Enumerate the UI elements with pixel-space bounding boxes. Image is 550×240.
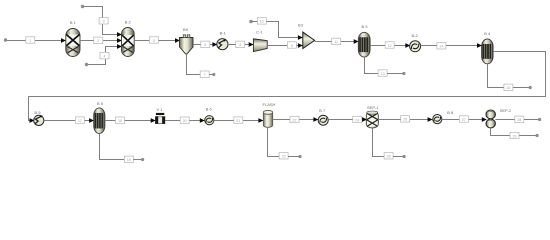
svg-text:B 6: B 6 [206, 107, 213, 112]
svg-text:B-1: B-1 [220, 31, 227, 36]
svg-text:3: 3 [103, 20, 105, 24]
wire recycle B-4 to heater B-5 [29, 52, 546, 121]
wire cyclone bottom tail [209, 74, 213, 76]
arrowhead into pump B-2 [405, 43, 410, 48]
arrowhead into cyclone [175, 38, 180, 43]
node end dot SEP-2 bottom [536, 134, 539, 137]
arrowhead into B3 upper [298, 35, 303, 40]
label box stream 29 [510, 132, 519, 138]
arrowhead into B1 [61, 38, 66, 43]
svg-text:B 3: B 3 [361, 24, 368, 29]
arrowhead into SEP-2 [482, 117, 487, 122]
wire B5 to valve V1 [105, 120, 155, 122]
svg-text:16: 16 [506, 86, 510, 90]
pump B-6 swirl circle [205, 116, 214, 125]
wire B5 bottom outlet [100, 134, 125, 160]
label box stream 20 [180, 117, 189, 123]
svg-text:19: 19 [127, 158, 131, 162]
wire B-4 bottom tail [513, 87, 530, 89]
node end dot flash bottom [298, 155, 301, 158]
svg-text:FLASH: FLASH [263, 102, 276, 107]
arrowhead into heater E1 [212, 42, 217, 47]
svg-text:22: 22 [293, 118, 297, 122]
wire B1 to B2 [80, 40, 122, 42]
wire B2 top input [82, 7, 122, 35]
arrowhead into SEP-1 [362, 117, 367, 122]
label box stream 2 [94, 37, 103, 43]
svg-text:14: 14 [439, 45, 443, 49]
cyclone B9 [180, 35, 194, 54]
wire compressor to mixer B3 [268, 45, 303, 47]
wire B-3 bottom tail [387, 73, 403, 75]
wire B-3 bottom outlet [365, 57, 379, 73]
svg-text:21: 21 [236, 119, 240, 123]
wire B5 bottom tail [133, 159, 142, 161]
svg-text:13: 13 [381, 72, 385, 76]
wire SEP-1 bottom outlet [373, 128, 385, 157]
svg-text:28: 28 [517, 118, 521, 122]
label box stream 17 [75, 117, 84, 123]
wire B-3 to pump B-2 [370, 45, 410, 47]
separator SEP-2 [486, 110, 495, 128]
label box stream 11 [332, 38, 341, 44]
label box stream 1 [26, 37, 35, 43]
node Qwe start dot [249, 20, 253, 24]
svg-text:B-2: B-2 [411, 33, 418, 38]
label box stream 7 [200, 71, 209, 77]
wire pump B-2 to vessel B-4 [421, 45, 482, 47]
wire SEP-1 bottom tail [393, 156, 404, 158]
separator SEP-1 [366, 111, 378, 128]
wire B3 to column B-3 [315, 41, 359, 43]
label box stream 5 [149, 37, 158, 43]
column B5 [94, 108, 105, 134]
arrowhead into heater B-5 [30, 118, 35, 123]
svg-text:C-1: C-1 [256, 30, 263, 35]
pump B-2 swirl circle [410, 41, 421, 52]
heater E1 circle [217, 39, 228, 50]
svg-text:10: 10 [260, 20, 264, 24]
svg-text:17: 17 [78, 119, 82, 123]
svg-text:8: 8 [239, 43, 241, 47]
svg-text:25: 25 [403, 118, 407, 122]
pump B-8 swirl circle [433, 115, 442, 124]
wire Qwe stream [251, 22, 303, 38]
arrowhead into pump B-6 [200, 118, 205, 123]
mixer B2 [122, 28, 135, 57]
wire B2 to cyclone [134, 40, 179, 42]
svg-text:B 8: B 8 [447, 110, 454, 115]
wire flash to pump B-7 [273, 119, 318, 121]
arrowhead into column B-3 [354, 39, 359, 44]
node end dot SEP-1 bottom [403, 155, 406, 158]
node top input start dot [81, 5, 84, 8]
wire B-4 bottom outlet [488, 64, 504, 88]
node end dot cyclone bottom [212, 73, 215, 76]
arrowhead into pump B-7 [313, 117, 318, 122]
vessel B-4 [482, 39, 494, 64]
svg-text:12: 12 [388, 44, 392, 48]
wire SEP-2 bottom outlet [491, 128, 537, 136]
svg-text:27: 27 [462, 118, 466, 122]
arrowhead into pump B-8 [428, 117, 433, 122]
node bottom input start dot [85, 63, 88, 66]
wire flash bottom outlet [268, 127, 280, 156]
svg-text:SEP-2: SEP-2 [500, 108, 512, 113]
node feed start dot [4, 38, 7, 41]
label box stream 16 [504, 84, 513, 90]
valve V-1 [155, 113, 165, 124]
label box stream 26 [384, 153, 393, 159]
wire valve to pump B-6 [165, 120, 204, 122]
mixer B1 [66, 29, 80, 57]
label box stream 10 [257, 18, 266, 24]
wire SEP-2 top outlet [495, 119, 539, 121]
flash drum FLASH [263, 111, 272, 128]
svg-text:26: 26 [387, 155, 391, 159]
svg-text:23: 23 [282, 155, 286, 159]
svg-text:SEP-1: SEP-1 [367, 105, 379, 110]
svg-text:B 2: B 2 [125, 20, 132, 25]
label box stream 4 [100, 52, 109, 58]
wire pump B-6 to flash [214, 120, 263, 122]
arrowhead into vessel B-4 [477, 43, 482, 48]
arrowhead into flash [258, 118, 263, 123]
svg-text:B 1: B 1 [70, 20, 77, 25]
compressor C-1 [253, 39, 267, 52]
label box stream 14 [437, 43, 446, 49]
label box stream 25 [401, 116, 410, 122]
svg-text:6: 6 [204, 43, 206, 47]
label box stream 23 [279, 153, 288, 159]
wire B2 bottom input [86, 47, 122, 65]
heater B-5 circle [34, 115, 44, 125]
wire flash bottom tail [288, 156, 300, 158]
label box stream 3 [99, 18, 108, 24]
svg-text:B9: B9 [183, 27, 189, 32]
svg-text:1: 1 [29, 39, 31, 43]
label box stream 21 [234, 117, 243, 123]
svg-text:18: 18 [118, 119, 122, 123]
node end dot B5 bottom [141, 158, 144, 161]
label box stream 27 [459, 116, 468, 122]
svg-text:24: 24 [355, 118, 359, 122]
label box stream 8 [236, 41, 245, 47]
svg-text:4: 4 [104, 54, 106, 58]
svg-text:2: 2 [97, 39, 99, 43]
svg-text:20: 20 [183, 119, 187, 123]
label box stream 19 [124, 156, 133, 162]
svg-text:B3: B3 [298, 22, 304, 27]
wire cyclone bottom outlet [187, 54, 203, 75]
svg-text:B 4: B 4 [484, 31, 491, 36]
column B-3 [358, 32, 370, 57]
svg-text:5: 5 [153, 39, 155, 43]
svg-text:V 1: V 1 [156, 107, 163, 112]
wire feed S1 [5, 40, 64, 42]
label box stream 13 [378, 70, 387, 76]
arrowhead into column B5 [89, 118, 94, 123]
arrowhead into B2 bottom [117, 44, 122, 49]
svg-text:B 5: B 5 [97, 101, 104, 106]
pump B-7 swirl circle [318, 115, 328, 125]
arrowhead into B2 mid [117, 38, 122, 43]
wire heater B-5 to column B5 [44, 120, 93, 122]
wire heater to compressor [228, 44, 253, 46]
svg-text:11: 11 [334, 40, 338, 44]
node end dot SEP-2 top [538, 118, 541, 121]
wire SEP-1 to pump B-8 [378, 119, 432, 121]
label box stream 22 [290, 116, 299, 122]
svg-text:B 7: B 7 [319, 108, 326, 113]
wire pump B-7 to SEP-1 [328, 119, 366, 121]
node end dot B-3 bottom [402, 72, 405, 75]
label box stream 18 [116, 117, 125, 123]
wire cyclone to heater E1 [193, 44, 217, 46]
label box stream 6 [201, 41, 210, 47]
arrowhead into B2 top [117, 32, 122, 37]
label box stream 24 [353, 116, 362, 122]
svg-text:29: 29 [513, 134, 517, 138]
wire pump B-8 to SEP-2 [442, 119, 486, 121]
label box stream 28 [515, 116, 524, 122]
label box stream 9 [287, 42, 296, 48]
svg-text:7: 7 [204, 73, 206, 77]
label box stream 12 [385, 42, 394, 48]
arrowhead into valve V1 [151, 118, 156, 123]
node end dot B-4 bottom [529, 86, 532, 89]
arrowhead into B3 lower [298, 43, 303, 48]
mixer B3 triangle [303, 32, 315, 49]
svg-text:9: 9 [291, 44, 293, 48]
svg-text:B-5: B-5 [34, 110, 41, 115]
arrowhead into compressor [249, 42, 254, 47]
